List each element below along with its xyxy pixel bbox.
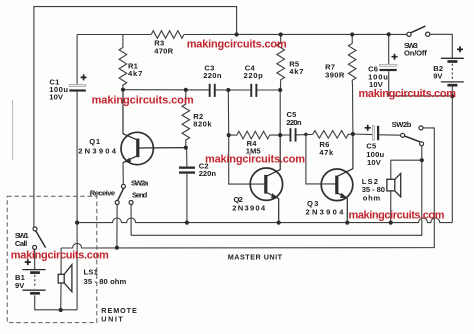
svg-text:SW2a: SW2a — [131, 178, 149, 187]
wire Q2 base lead — [229, 135, 266, 184]
svg-text:220n: 220n — [199, 169, 217, 178]
capacitor C5 220n coupling — [290, 128, 297, 141]
resistor R5 4k7 from rail to C4 node — [277, 35, 285, 91]
label C5 100u value — [366, 142, 384, 168]
wire C5 100u to SW2b pole — [379, 134, 401, 136]
switch SW3 on-off — [407, 26, 430, 36]
watermark makingcircuits.com lower left — [11, 250, 109, 262]
label SW2a send receive — [90, 178, 149, 199]
resistor R7 390R from rail to Q3 collector node — [348, 35, 356, 135]
label C2 value — [199, 161, 217, 178]
resistor R4 1M5 feedback Q2 base to collector — [229, 131, 281, 139]
label SW2b — [392, 120, 412, 129]
wire SW2a receive contact down to LS1 line — [116, 204, 118, 247]
wire remote unit bottom rail — [35, 295, 77, 309]
label C4 value — [244, 64, 264, 80]
wire battery B2 negative down to ground rail — [451, 85, 453, 222]
svg-text:makingcircuits.com: makingcircuits.com — [11, 250, 109, 262]
svg-text:2N3904: 2N3904 — [232, 203, 266, 212]
label Q3 type — [306, 199, 345, 216]
resistor R1 4k7 from rail to Q1 collector node — [119, 35, 127, 90]
capacitor C1 100u 10V electrolytic — [69, 74, 86, 91]
svg-text:Q1: Q1 — [89, 137, 101, 146]
wire C5 220n to Q3 base node and R6 — [295, 133, 313, 136]
svg-text:SW2b: SW2b — [392, 120, 412, 129]
label B2 value — [433, 64, 443, 81]
svg-text:390R: 390R — [325, 70, 345, 79]
wire Q1 base node down to C2 — [186, 148, 188, 167]
svg-text:makingcircuits.com: makingcircuits.com — [205, 154, 305, 166]
label R7 value — [325, 63, 345, 80]
wire C3 to C4 node — [215, 89, 251, 91]
wire LS1 top lead — [60, 248, 62, 274]
watermark makingcircuits.com upper left — [92, 94, 194, 106]
wire Q2 collector node to C5 220n — [280, 134, 290, 136]
wire C3-C4 node down to Q2 base node — [227, 90, 229, 135]
watermark makingcircuits.com center — [205, 154, 305, 166]
label LS2 value — [362, 177, 386, 202]
capacitor C5 100u electrolytic — [365, 125, 380, 140]
svg-text:35 - 80 ohm: 35 - 80 ohm — [84, 277, 127, 286]
capacitor C6 branch wire from rail — [388, 34, 390, 64]
resistor R3 470R in supply rail — [151, 31, 184, 39]
wire LS2 top branch from SW2b pole vertical — [391, 160, 422, 179]
watermark makingcircuits.com top — [187, 39, 287, 51]
wire Q1 emitter to SW2a pole — [122, 163, 124, 185]
svg-text:220n: 220n — [286, 118, 302, 127]
capacitor C4 220p — [250, 84, 257, 97]
wire SW3 to battery B2 positive — [430, 34, 452, 58]
svg-text:makingcircuits.com: makingcircuits.com — [92, 94, 194, 106]
capacitor C3 220n — [209, 84, 216, 97]
speaker LS1 35-80 ohm — [58, 265, 72, 292]
wire top supply rail left section — [77, 34, 151, 36]
svg-text:On/Off: On/Off — [404, 48, 427, 57]
resistor R2 820k from C3 node to Q1 base — [182, 90, 190, 148]
svg-text:9V: 9V — [433, 72, 443, 81]
svg-text:470R: 470R — [154, 46, 173, 55]
label LS1 value — [84, 268, 127, 286]
svg-text:makingcircuits.com: makingcircuits.com — [349, 210, 445, 222]
wire SW2a send contact down to send rail — [130, 204, 132, 235]
label SW3 — [404, 41, 427, 57]
label REMOTE UNIT — [101, 306, 137, 323]
label R2 value — [193, 112, 212, 128]
speaker LS2 35-80 ohm — [387, 173, 401, 196]
svg-text:220n: 220n — [203, 71, 222, 80]
wire Q2 collector node up to C4-R5 node — [279, 90, 281, 135]
wire top frame from remote call line to supply rail — [34, 7, 237, 227]
label SW1 call — [15, 231, 30, 248]
wire C6 bottom to battery B2 negative — [389, 71, 453, 96]
label R5 value — [289, 59, 304, 76]
wire ground rail with hops over SW2a leads and right verticals — [77, 218, 452, 223]
svg-text:9V: 9V — [15, 281, 25, 290]
switch SW2b send-receive — [401, 126, 424, 146]
label Q2 type — [232, 195, 266, 212]
wire LS2 bottom to ground rail — [390, 191, 392, 223]
wire C4 to R5 bottom node — [256, 89, 280, 91]
label B1 value — [15, 273, 26, 290]
label Q1 type — [78, 137, 117, 156]
watermark makingcircuits.com upper right — [359, 88, 457, 100]
wire receive rail from LS1 top with hop to SW2b upper throw — [61, 128, 434, 248]
wire supply rail right section to SW3 — [184, 33, 407, 35]
label R3 value — [154, 38, 173, 55]
svg-text:4k7: 4k7 — [289, 67, 304, 76]
transistor Q3 2N3904 — [321, 134, 353, 223]
switch SW2a send-receive — [115, 184, 133, 204]
svg-text:Receive: Receive — [90, 189, 116, 198]
label R1 value — [128, 61, 143, 78]
label R4 value — [246, 139, 262, 156]
svg-text:47k: 47k — [319, 148, 334, 157]
transistor Q1 2N3904 — [121, 90, 186, 165]
transistor Q2 2N3904 — [250, 135, 282, 223]
label C1 value — [49, 77, 68, 101]
svg-text:4k7: 4k7 — [128, 69, 143, 78]
capacitor C1 branch wire from rail down — [76, 35, 78, 85]
wire Q3 collector node to C5 100u — [353, 133, 372, 136]
svg-text:10V: 10V — [49, 93, 64, 102]
remote unit dashed enclosure — [7, 196, 97, 322]
label C3 value — [203, 64, 222, 80]
svg-text:makingcircuits.com: makingcircuits.com — [187, 39, 287, 51]
svg-text:Send: Send — [132, 191, 148, 200]
svg-text:LS1: LS1 — [84, 268, 99, 277]
svg-text:UNIT: UNIT — [101, 314, 123, 323]
svg-text:220p: 220p — [244, 71, 264, 80]
battery B1 9V — [22, 259, 45, 293]
switch SW1 call pushbutton — [33, 227, 46, 250]
svg-text:Call: Call — [15, 239, 28, 248]
wire C2 bottom to ground rail — [186, 174, 188, 223]
resistor R6 47k feedback Q3 base to collector — [313, 131, 353, 139]
wire send rail to SW2b pole branch — [131, 146, 422, 236]
label MASTER UNIT — [228, 252, 283, 261]
watermark makingcircuits.com center right — [349, 210, 445, 222]
svg-text:makingcircuits.com: makingcircuits.com — [359, 88, 457, 100]
label R6 value — [319, 140, 334, 157]
capacitor C6 100u electrolytic — [380, 54, 398, 71]
svg-text:820k: 820k — [193, 119, 212, 128]
svg-text:10V: 10V — [367, 158, 382, 167]
label C5 220n value — [286, 110, 302, 127]
wire Q1 collector node line to C3 — [123, 89, 210, 91]
wire LS1 bottom lead — [60, 283, 62, 310]
battery B2 9V — [441, 46, 464, 85]
label C6 value — [368, 64, 388, 89]
scan artifact faint line — [12, 100, 14, 160]
svg-text:MASTER UNIT: MASTER UNIT — [228, 252, 283, 261]
wire SW1 to battery B1 — [34, 249, 36, 269]
wire Q3 base lead — [306, 134, 337, 184]
svg-text:ohm: ohm — [363, 193, 381, 202]
capacitor C2 220n — [179, 167, 195, 174]
wire C1 bottom down through ground rail into remote unit — [76, 92, 78, 310]
